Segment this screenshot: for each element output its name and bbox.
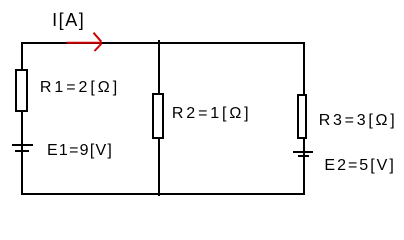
label R1 value [40, 80, 120, 96]
label I[A] [52, 11, 85, 29]
label R3 value [319, 113, 398, 129]
battery E1 short plate [15, 150, 29, 152]
wire middle vertical [158, 40, 160, 196]
label R2 value [172, 106, 252, 122]
battery E2 short plate [298, 155, 309, 157]
battery E1 long plate [12, 144, 34, 146]
battery E2 long plate [293, 151, 313, 153]
resistor R3 [297, 94, 307, 138]
resistor R2 [152, 93, 164, 138]
wire bottom horizontal [21, 193, 306, 195]
label E2 value [324, 158, 395, 174]
wire right vertical [303, 42, 305, 195]
label E1 value [47, 143, 113, 159]
resistor R1 [15, 69, 27, 112]
wire left vertical [21, 42, 23, 195]
wire top horizontal [21, 42, 306, 44]
